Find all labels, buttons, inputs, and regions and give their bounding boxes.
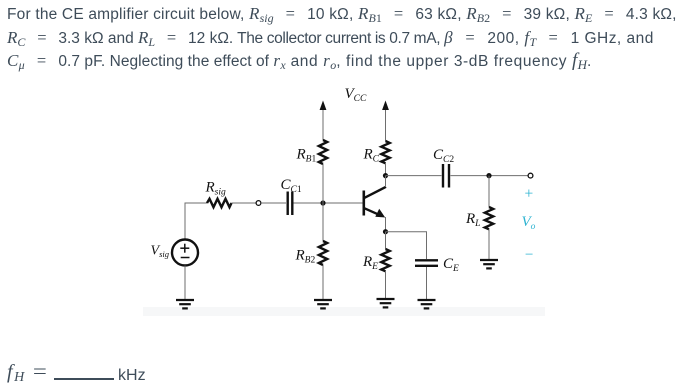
svg-text:RB2: RB2 xyxy=(295,248,316,266)
svg-text:−: − xyxy=(524,247,534,263)
wire: RB2 to ground xyxy=(322,265,324,299)
VCC arrow (RB1 branch) xyxy=(320,101,327,141)
wire: RC to collector node xyxy=(385,163,387,175)
resistor RE xyxy=(381,249,389,271)
svg-text:CC1: CC1 xyxy=(281,177,302,195)
svg-text:RL: RL xyxy=(465,211,480,229)
svg-text:Vo: Vo xyxy=(522,214,536,232)
wire: emitter to RE xyxy=(385,232,387,249)
wire: emitter to CE xyxy=(386,232,427,259)
svg-text:Vsig: Vsig xyxy=(151,244,169,260)
capacitor CC1 xyxy=(288,192,293,216)
ground (below RL) xyxy=(480,260,498,268)
svg-text:+: + xyxy=(524,186,534,203)
svg-text:VCC: VCC xyxy=(345,86,368,104)
svg-text:CC2: CC2 xyxy=(433,147,454,165)
transistor Q1 xyxy=(364,176,386,232)
resistor RL xyxy=(485,207,493,229)
VCC arrow (RC branch) xyxy=(382,101,389,142)
ground (below RB2) xyxy=(314,300,332,308)
node: output junction xyxy=(486,173,491,178)
wire: junction to RB2 xyxy=(322,203,324,241)
voltage source Vsig xyxy=(172,240,198,266)
node: collector xyxy=(383,173,388,178)
circuit background band xyxy=(143,307,545,316)
svg-text:CE: CE xyxy=(443,256,459,274)
wire: CC1 to base xyxy=(294,202,363,204)
svg-text:RB1: RB1 xyxy=(296,147,317,165)
wire: RE to ground xyxy=(385,271,387,298)
svg-text:RE: RE xyxy=(362,254,378,272)
ground (below Vsig) xyxy=(176,300,194,308)
wire: collector to CC2 xyxy=(386,175,442,177)
wire: RL to ground xyxy=(488,229,490,259)
wire: junction to RL xyxy=(488,176,490,207)
wire: CC2 to output xyxy=(451,175,529,177)
node: emitter xyxy=(383,229,388,234)
output terminal (open circle) xyxy=(528,173,533,178)
node: base bias junction xyxy=(320,200,325,205)
ground (below CE) xyxy=(418,300,436,308)
resistor Rsig xyxy=(207,199,232,207)
resistor RB2 xyxy=(319,241,327,265)
svg-text:RC: RC xyxy=(363,147,380,165)
resistor RC xyxy=(381,141,389,163)
capacitor CE xyxy=(415,260,438,266)
svg-text:Rsig: Rsig xyxy=(205,180,227,198)
wire: terminal to CC1 xyxy=(261,202,286,204)
wire: Rsig to input terminal xyxy=(232,202,257,204)
capacitor CC2 xyxy=(443,164,449,188)
wire: CE to ground xyxy=(426,267,428,299)
wire: Vsig top to Rsig xyxy=(185,203,207,240)
ground (below RE) xyxy=(377,299,395,307)
input terminal (open circle) xyxy=(256,201,261,206)
resistor RB1 xyxy=(319,140,327,164)
wire: RB1 to junction xyxy=(322,164,324,203)
wire: Vsig bottom to ground xyxy=(184,266,186,300)
